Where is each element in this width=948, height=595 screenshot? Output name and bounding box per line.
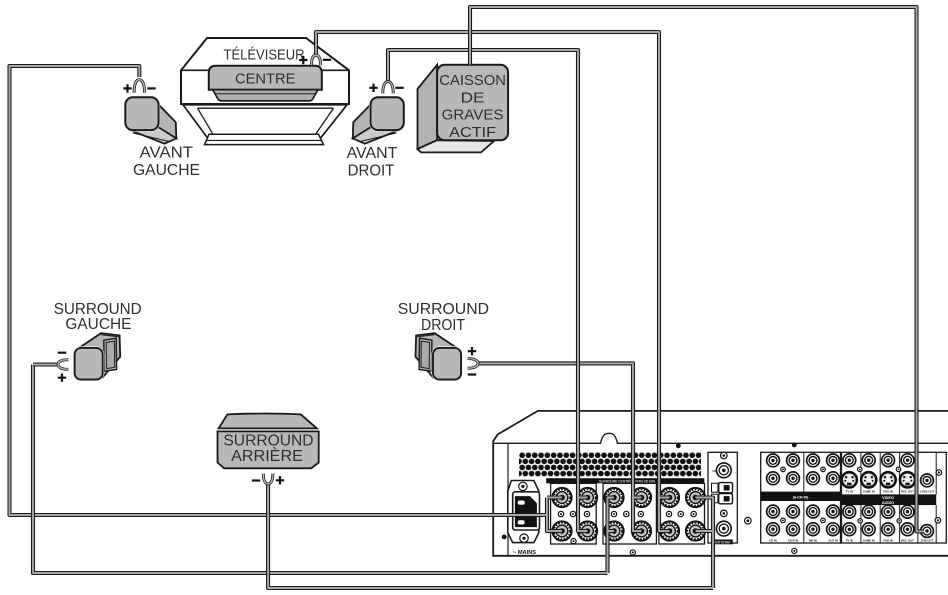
screw terminal mid 1 [558,511,563,516]
screw left body screw [502,535,507,540]
speaker binding post col1 + [552,488,571,507]
RCA jack audio DVD IN L [882,505,895,518]
surround droit speaker side window [419,338,432,371]
RCA jack audio GAME IN L [862,505,875,518]
surround gauche speaker top edge line [101,335,119,337]
surround arriere speaker front face [218,431,319,468]
screw video screw b [896,467,900,471]
centre speaker front face [213,90,318,101]
terminal box surround group [551,483,597,544]
svg-text:REC OUT: REC OUT [901,490,914,494]
S-video connector svideo TV IN [842,472,857,487]
wire avant droit cable [388,50,588,531]
screw top screw B [792,443,797,448]
wire surround gauche lead [33,362,58,366]
wire subwoofer RCA cable [470,7,924,531]
RCA jack 6ch top r1 c2 [787,454,800,467]
screw audio screw a [858,519,862,523]
svg-text:CVBS OUT: CVBS OUT [920,490,935,494]
avant droit speaker front face [371,97,404,130]
svg-text:GAUCHE: GAUCHE [65,316,131,333]
svg-text:DROIT: DROIT [421,317,465,334]
svg-text:VIDEO: VIDEO [882,496,894,500]
RCA jack 6ch top r2 c3 [807,472,820,485]
wire avant gauche cable [10,66,563,531]
RCA jack audio DVD IN R [882,523,895,536]
svg-text:SUB OUT: SUB OUT [921,538,934,542]
video audio panel [842,452,947,543]
RCA jack 6ch top r2 c1 [767,472,780,485]
RCA jack 6ch bot r1 c3 [807,505,820,518]
surround droit speaker front face [433,348,461,380]
RCA jack 6ch bot r1 c4 [827,505,840,518]
terminal box front group [659,483,705,544]
screw 6ch screw a [781,467,786,472]
FM antenna jack [716,463,731,478]
RCA jack 6ch bot r2 c3 [807,523,820,536]
surround gauche speaker body [78,333,120,377]
screw 6ch screw b [821,467,826,472]
television cabinet (rear top view) [181,38,349,104]
svg-text:AVANT: AVANT [140,144,194,161]
AM antenna jack [716,521,731,536]
VIDEO AUDIO label band [842,494,937,505]
screw terminal mid 7 [666,511,671,516]
svg-text:CD-R IN: CD-R IN [788,538,799,542]
svg-text:TÉLÉVISEUR: TÉLÉVISEUR [224,46,305,63]
ANTENNA label [712,540,733,545]
RCA jack video top REC OUT [901,454,914,467]
speaker binding post col2 + [578,488,597,507]
RCA jack audio REC OUT L [901,505,914,518]
svg-text:AVANT: AVANT [347,145,398,162]
avant droit speaker side face [353,99,376,138]
television base inner line [207,139,322,141]
wire surround gauche cable [33,365,614,574]
surround gauche speaker side window [104,338,117,371]
RCA jack audio TV IN R [843,523,856,536]
svg-text:DVD IN: DVD IN [883,490,892,494]
screw top screw A [676,443,681,448]
surround droit speaker top edge line [416,335,434,337]
S-video connector svideo GAME IN [861,472,876,487]
speaker binding post col4 - [632,521,651,540]
RCA jack audio REC OUT R [901,523,914,536]
screw terminal mid 9 [691,511,696,516]
RCA jack audio GAME IN R [862,523,875,536]
centre speaker top face [209,66,322,90]
svg-text:(6-CH IN): (6-CH IN) [793,495,809,499]
screw terminal mid 8 [678,511,683,516]
screw video screw c [936,470,942,476]
screw terminal mid 6 [638,511,643,516]
S-video connector svideo DVD IN [881,472,896,487]
RCA jack video top GAME IN [862,454,875,467]
wire centre cable [316,32,670,531]
RCA jack video top DVD IN [882,454,895,467]
AM antenna terminal block [712,483,733,504]
speaker binding post col5 + [660,488,679,507]
speaker binding post col4 + [632,488,651,507]
centre speaker band line [215,93,317,95]
RCA jack CVBS OUT [921,474,934,487]
spade connector surround gauche [58,360,69,370]
screw IEC bottom [520,534,528,542]
RCA jack audio TV IN L [843,505,856,518]
ventilation grille [519,452,701,477]
svg-text:CENTRE: CENTRE [235,70,296,87]
svg-text:MD IN: MD IN [809,538,817,542]
terminal box centre group [603,483,656,544]
screw panel gap screw [745,517,752,524]
speakers label bar [546,478,704,487]
receiver amplifier rear panel body [493,411,948,556]
surround droit speaker body [416,333,458,377]
speaker binding post col6 - [686,521,705,540]
television bezel inner lines [198,108,334,134]
speaker binding post col3 - [604,521,623,540]
svg-text:CD IN: CD IN [769,538,777,542]
spade connector surround arriere [263,474,273,485]
television back fold line [181,69,349,71]
avant gauche speaker bottom face [130,127,176,143]
screw 6ch screw d [821,518,826,523]
svg-text:FM: FM [713,469,718,473]
svg-text:SURROUND: SURROUND [223,432,313,449]
spade connector surround droit [468,359,479,369]
surround arriere speaker top face [219,414,317,429]
screw bottom centre [630,550,635,555]
svg-text:GRAVES: GRAVES [442,108,504,124]
speaker binding post col1 - [552,521,571,540]
screw antenna pin bottom [721,510,728,517]
RCA jack 6ch top r1 c3 [807,454,820,467]
screw bottom right [792,548,797,553]
IEC mains inlet plate [508,481,539,543]
speaker binding post col6 + [686,488,705,507]
6-CH IN label band [761,492,841,501]
RCA jack 6ch top r2 c2 [787,472,800,485]
svg-text:TV IN: TV IN [846,490,853,494]
avant gauche speaker bottom face line [133,133,169,141]
svg-text:DROIT: DROIT [348,163,395,180]
wire surround droit cable [478,363,642,531]
svg-text:AUX IN: AUX IN [828,538,837,542]
S-video connector svideo REC OUT [900,472,915,487]
spade connector avant gauche [134,80,144,93]
avant droit speaker bottom face line [361,133,397,141]
svg-text:CAISSON: CAISSON [439,73,506,89]
spade connector avant droit [383,82,393,94]
svg-text:GAME IN: GAME IN [863,538,875,542]
RCA jack 6ch top r1 c1 [767,454,780,467]
IEC socket [513,492,540,530]
RCA jack 6ch bot r2 c2 [787,523,800,536]
RCA jack 6ch bot r1 c1 [767,505,780,518]
spade connector centre [311,55,320,65]
receiver panel left margin line [507,443,509,556]
RCA jack 6ch top r1 c4 [827,454,840,467]
avant gauche speaker side face [154,99,177,138]
screw audio screw c [935,518,941,524]
RCA jack 6ch bot r2 c4 [827,523,840,536]
svg-text:DVD IN: DVD IN [883,538,892,542]
svg-text:ACTIF: ACTIF [449,125,496,141]
caisson bottom face [418,140,495,152]
6-channel input panel [761,452,841,543]
screw terminal mid 4 [611,511,616,516]
screw terminal mid 5 [624,511,629,516]
screw video screw a [858,467,862,471]
screw 6ch screw c [781,518,786,523]
RCA jack 6ch top r2 c4 [827,472,840,485]
avant droit speaker bottom face [353,127,399,143]
RCA jack 6ch bot r1 c2 [787,505,800,518]
svg-text:GAME IN: GAME IN [863,490,875,494]
antenna panel [708,452,737,543]
screw IEC top [519,482,527,490]
receiver rear panel top edge line [493,433,948,443]
RCA jack 6ch bot r2 c1 [767,523,780,536]
surround gauche speaker front face [75,348,103,380]
RCA jack SUB OUT [921,525,934,538]
avant gauche speaker front face [125,97,158,130]
svg-text:ARRIÈRE: ARRIÈRE [231,448,303,465]
svg-text:~ MAINS: ~ MAINS [513,550,537,556]
screw antenna pin top [721,452,728,459]
RCA jack video top TV IN [843,454,856,467]
speaker binding post col5 - [660,521,679,540]
screw terminal mid 2 [570,511,575,516]
speaker binding post col3 + [604,488,623,507]
svg-text:TV IN: TV IN [846,538,853,542]
screw terminal mid 3 [584,511,589,516]
television base bar [205,134,324,144]
screw below col2 [571,539,576,544]
svg-text:GAUCHE: GAUCHE [133,162,200,179]
svg-text:SURROUND: SURROUND [398,301,489,318]
wire surround arriere cable [268,484,713,588]
svg-text:REC OUT: REC OUT [901,538,914,542]
television bezel trapezoid [183,105,347,143]
caisson front face [437,65,508,140]
screw audio screw b [897,519,901,523]
svg-text:AUDIO: AUDIO [882,501,894,505]
speaker binding post col2 - [578,521,597,540]
caisson side face [418,65,438,149]
svg-text:ANTENNA: ANTENNA [714,540,731,544]
svg-text:DE: DE [461,90,485,106]
